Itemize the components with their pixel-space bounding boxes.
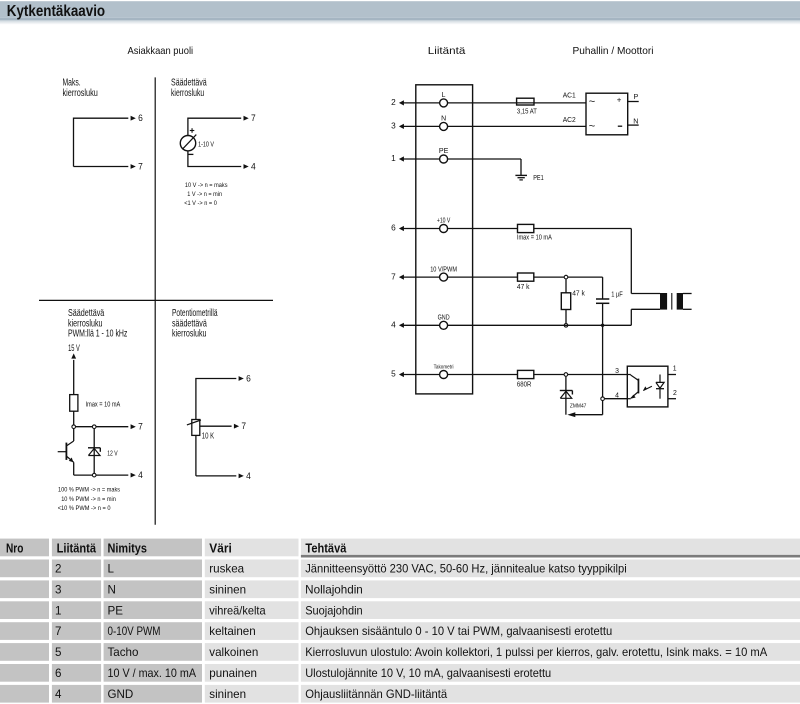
- svg-text:Imax = 10 mA: Imax = 10 mA: [517, 235, 552, 242]
- svg-text:kierrosluku: kierrosluku: [63, 88, 98, 99]
- divider vertical line: [154, 77, 156, 524]
- node label 7 (Q1): [138, 161, 143, 171]
- svg-text:P: P: [634, 92, 639, 101]
- svg-text:3: 3: [391, 121, 396, 131]
- svg-text:Liitäntä: Liitäntä: [428, 45, 466, 57]
- label Säädettävä kierrosluku (Q2): [171, 78, 207, 100]
- svg-text:Ohjausliitännän GND-liitäntä: Ohjausliitännän GND-liitäntä: [305, 688, 448, 701]
- svg-text:L: L: [442, 92, 446, 99]
- node label 6 (Q1): [138, 113, 143, 123]
- optocoupler U1: [627, 366, 668, 407]
- resistor R2 (Imax = 10 mA): [518, 224, 534, 232]
- svg-text:Säädettävä: Säädettävä: [171, 78, 207, 89]
- svg-text:4: 4: [55, 688, 62, 701]
- svg-text:Kytkentäkaavio: Kytkentäkaavio: [7, 3, 105, 20]
- svg-text:2: 2: [673, 390, 677, 397]
- resistor R3 47 k horizontal: [518, 273, 534, 281]
- resistor R4 47 k vertical: [561, 279, 570, 323]
- wire motor N output: [628, 124, 639, 126]
- fuse F1 3,15 AT: [517, 98, 534, 105]
- svg-text:6: 6: [55, 667, 61, 680]
- svg-text:Tehtävä: Tehtävä: [305, 541, 347, 556]
- label Säädettävä kierrosluku PWM:llä (Q3): [68, 308, 127, 340]
- resistor R5 680R: [518, 370, 534, 378]
- wire pot bottom to terminal 4: [196, 435, 244, 478]
- net label AC2: [563, 117, 576, 124]
- svg-text:Tacho: Tacho: [108, 646, 139, 659]
- svg-text:6: 6: [391, 223, 396, 233]
- node E open junction on GND line: [564, 324, 568, 328]
- svg-text:680R: 680R: [517, 381, 532, 388]
- svg-text:47 k: 47 k: [572, 291, 585, 298]
- value label Imax = 10 mA (main): [517, 235, 552, 242]
- svg-text:2: 2: [55, 563, 61, 576]
- section label Asiakkaan puoli: [128, 45, 194, 57]
- wire node A to terminal 7: [76, 424, 136, 429]
- connector plug to motor (shielded): [660, 293, 692, 310]
- wire 15 V with up arrow: [71, 353, 76, 394]
- svg-text:~: ~: [589, 96, 595, 108]
- label Maks. kierrosluku: [63, 78, 98, 100]
- svg-text:AC1: AC1: [563, 92, 576, 99]
- svg-text:N: N: [108, 583, 116, 596]
- transistor Q1 (NPN): [58, 429, 74, 475]
- svg-text:N: N: [633, 117, 638, 126]
- terminal 7 (10 V/PWM) with pin circle and left arrow: [391, 266, 457, 281]
- wire pin 1 stub: [668, 374, 676, 376]
- svg-text:10 V/PWM: 10 V/PWM: [430, 266, 457, 273]
- note text Q3 PWM mapping: [58, 486, 121, 512]
- svg-text:4: 4: [138, 470, 143, 480]
- wire +10 V to connector: [448, 229, 660, 294]
- svg-text:Väri: Väri: [209, 541, 232, 556]
- value label 47 k (R3): [517, 284, 530, 291]
- title bar: [0, 1, 800, 24]
- svg-text:Suojajohdin: Suojajohdin: [305, 604, 363, 617]
- node B open junction: [92, 425, 96, 429]
- svg-text:PWM:llä 1 - 10 kHz: PWM:llä 1 - 10 kHz: [68, 329, 127, 340]
- capacitor C1 1 uF: [596, 277, 609, 397]
- svg-text:10 V / max. 10 mA: 10 V / max. 10 mA: [108, 667, 197, 680]
- terminal block X1: [416, 85, 473, 394]
- terminal 2 (L) with pin circle and left arrow: [391, 92, 448, 107]
- pin label 4: [615, 392, 619, 399]
- svg-text:keltainen: keltainen: [209, 625, 255, 638]
- svg-text:kierrosluku: kierrosluku: [68, 318, 103, 329]
- svg-text:PE1: PE1: [533, 175, 544, 182]
- terminal 4 (GND) with pin circle and left arrow: [391, 315, 450, 330]
- terminal 5 (Takometri) with pin circle and left arrow: [391, 365, 453, 379]
- wire pin 2 stub: [668, 398, 676, 400]
- svg-text:Maks.: Maks.: [63, 78, 81, 89]
- svg-text:1-10 V: 1-10 V: [198, 141, 214, 148]
- svg-text:ZMM47: ZMM47: [570, 403, 587, 409]
- value label 3,15 AT: [517, 109, 538, 116]
- value label 47 k (R4): [572, 291, 585, 298]
- pin label 3: [615, 368, 619, 375]
- svg-text:Potentiometrillä: Potentiometrillä: [172, 308, 218, 319]
- junction dot GND-capacitor crossing: [601, 324, 604, 327]
- node label 7 (Q3): [138, 422, 143, 432]
- table: [0, 539, 800, 703]
- wire motor P output: [628, 101, 639, 103]
- terminal 3 (N) with pin circle and left arrow: [391, 116, 448, 131]
- svg-text:säädettävä: säädettävä: [172, 318, 207, 329]
- svg-text:100 % PWM -> n = maks: 100 % PWM -> n = maks: [58, 486, 121, 493]
- wire 10 V/PWM to RC node: [448, 276, 603, 278]
- svg-text:5: 5: [391, 369, 396, 379]
- svg-text:10 % PWM -> n = min: 10 % PWM -> n = min: [61, 496, 116, 503]
- wire Q2 source minus to terminal 4: [188, 151, 249, 169]
- motor M1 box: [586, 93, 628, 135]
- node D open junction on PWM line: [564, 275, 568, 279]
- svg-text:6: 6: [246, 373, 251, 383]
- node A open junction: [72, 425, 76, 429]
- label 15 V supply: [68, 343, 80, 353]
- svg-text:vihreä/kelta: vihreä/kelta: [209, 604, 266, 617]
- svg-text:7: 7: [391, 271, 396, 281]
- phototransistor inside U1: [627, 375, 639, 399]
- svg-text:Jännitteensyöttö 230 VAC, 50-6: Jännitteensyöttö 230 VAC, 50-60 Hz, jänn…: [305, 563, 627, 576]
- svg-text:1 V -> n = min: 1 V -> n = min: [187, 191, 222, 198]
- node label 6 (Q4): [246, 373, 251, 383]
- svg-text:Ulostulojännite 10 V, 10 mA, g: Ulostulojännite 10 V, 10 mA, galvaanises…: [305, 667, 551, 680]
- svg-text:N: N: [441, 116, 446, 123]
- svg-text:3: 3: [615, 368, 619, 375]
- svg-text:7: 7: [138, 422, 143, 432]
- svg-text:4: 4: [251, 161, 256, 171]
- svg-text:Imax = 10 mA: Imax = 10 mA: [86, 402, 121, 409]
- wire pot top to terminal 6: [196, 376, 244, 419]
- section label Liitäntä: [428, 45, 466, 57]
- svg-text:Säädettävä: Säädettävä: [68, 308, 105, 319]
- svg-text:4: 4: [246, 471, 251, 481]
- wire Q2 source plus to terminal 7: [188, 116, 249, 136]
- svg-text:1 µF: 1 µF: [611, 292, 623, 299]
- svg-text:Puhallin / Moottori: Puhallin / Moottori: [573, 45, 654, 57]
- svg-text:0-10V PWM: 0-10V PWM: [108, 625, 161, 638]
- svg-text:4: 4: [391, 320, 396, 330]
- wire node G to optocoupler pin 4: [605, 398, 628, 400]
- svg-text:Liitäntä: Liitäntä: [57, 541, 97, 556]
- value label 1 uF: [611, 292, 623, 299]
- svg-text:Asiakkaan puoli: Asiakkaan puoli: [128, 45, 194, 57]
- terminal 6 (+10 V) with pin circle and left arrow: [391, 218, 451, 233]
- wire GND to connector: [448, 309, 660, 325]
- wire pot wiper to terminal 7: [200, 424, 239, 429]
- note text Q2 voltage mapping: [184, 182, 228, 207]
- zener diode D1 12 V: [88, 429, 100, 473]
- value label 680R: [517, 381, 532, 388]
- svg-text:valkoinen: valkoinen: [209, 646, 258, 659]
- svg-text:sininen: sininen: [209, 688, 246, 701]
- wire Q1 to terminal 7: [74, 164, 136, 169]
- svg-text:Nollajohdin: Nollajohdin: [305, 583, 363, 596]
- svg-text:4: 4: [615, 392, 619, 399]
- svg-text:12 V: 12 V: [107, 449, 117, 458]
- wire L to fuse and AC1: [448, 102, 586, 104]
- svg-text:7: 7: [138, 161, 143, 171]
- pin label P: [634, 92, 639, 101]
- svg-text:<1 V -> n = 0: <1 V -> n = 0: [184, 200, 217, 207]
- svg-text:5: 5: [55, 646, 61, 659]
- ground PE1: [515, 175, 527, 180]
- svg-text:10 K: 10 K: [202, 432, 215, 441]
- wire resistor to node A: [73, 411, 75, 424]
- svg-text:GND: GND: [108, 688, 134, 701]
- value label Imax = 10 mA (Q3): [86, 402, 121, 409]
- node F open junction on tacho line: [564, 373, 568, 377]
- wire emitter rail to terminal 4: [74, 473, 136, 478]
- svg-text:L: L: [108, 563, 115, 576]
- svg-text:sininen: sininen: [209, 583, 246, 596]
- svg-text:GND: GND: [438, 315, 450, 322]
- value label ZMM47: [570, 403, 587, 409]
- svg-text:+: +: [617, 95, 622, 104]
- node label 4 (Q3): [138, 470, 143, 480]
- svg-text:7: 7: [55, 625, 61, 638]
- svg-text:Ohjauksen sisääntulo 0 - 10 V: Ohjauksen sisääntulo 0 - 10 V tai PWM, g…: [305, 625, 612, 638]
- wire zener return with arrow: [567, 401, 602, 417]
- svg-text:ruskea: ruskea: [209, 563, 244, 576]
- svg-text:Kierrosluvun ulostulo: Avoin k: Kierrosluvun ulostulo: Avoin kollektori,…: [305, 646, 767, 659]
- svg-text:1: 1: [391, 153, 396, 163]
- voltage source V1 1-10 V: [180, 128, 196, 154]
- svg-text:+10 V: +10 V: [437, 218, 451, 225]
- svg-text:punainen: punainen: [209, 667, 257, 680]
- net label AC1: [563, 92, 576, 99]
- svg-text:<10 % PWM -> n = 0: <10 % PWM -> n = 0: [58, 505, 111, 512]
- label Potentiometrillä säädettävä kierrosluku (Q4): [172, 308, 218, 340]
- wire Q1 to terminal 6: [74, 116, 136, 167]
- section label Puhallin / Moottori: [573, 45, 654, 57]
- svg-text:PE: PE: [439, 148, 449, 155]
- svg-text:~: ~: [589, 121, 595, 133]
- node label 4 (Q4): [246, 471, 251, 481]
- zener diode D2 ZMM47: [560, 377, 573, 415]
- node label 4 (Q2): [251, 161, 256, 171]
- svg-text:Takometri: Takometri: [434, 365, 454, 371]
- svg-text:3: 3: [55, 583, 61, 596]
- svg-text:10 V -> n = maks: 10 V -> n = maks: [185, 182, 228, 189]
- svg-text:47 k: 47 k: [517, 284, 530, 291]
- node G open junction at pin 4 line: [601, 397, 605, 401]
- svg-text:Nimitys: Nimitys: [108, 541, 147, 556]
- value label 10 K: [202, 432, 215, 441]
- node C open junction: [92, 473, 96, 477]
- pin label 2: [673, 390, 677, 397]
- svg-text:Nro: Nro: [6, 541, 23, 556]
- svg-text:AC2: AC2: [563, 117, 576, 124]
- terminal 1 (PE) with pin circle and left arrow: [391, 148, 449, 163]
- svg-text:7: 7: [251, 113, 256, 123]
- node label 7 (Q4): [241, 421, 246, 431]
- node label 7 (Q2): [251, 113, 256, 123]
- wire PE to ground: [448, 159, 521, 175]
- LED inside U1: [656, 375, 664, 399]
- value label 12 V: [107, 449, 117, 458]
- svg-text:6: 6: [138, 113, 143, 123]
- svg-text:1: 1: [55, 604, 61, 617]
- wire N to AC2: [448, 125, 586, 127]
- svg-text:3,15 AT: 3,15 AT: [517, 109, 538, 116]
- svg-text:2: 2: [391, 97, 396, 107]
- svg-text:PE: PE: [108, 604, 124, 617]
- svg-text:15 V: 15 V: [68, 343, 80, 353]
- wire Takometri to optocoupler pin 3: [448, 374, 627, 376]
- svg-text:kierrosluku: kierrosluku: [171, 88, 204, 99]
- svg-text:kierrosluku: kierrosluku: [172, 329, 207, 340]
- pin label 1: [673, 366, 677, 373]
- pin label N: [633, 117, 638, 126]
- resistor R1 (Imax = 10 mA): [70, 395, 78, 412]
- optical arrow inside U1: [643, 386, 652, 391]
- net label PE1: [533, 175, 544, 182]
- svg-text:1: 1: [673, 366, 677, 373]
- svg-text:7: 7: [241, 421, 246, 431]
- value label 1-10 V: [198, 141, 214, 148]
- potentiometer P1 10 K: [187, 420, 201, 436]
- divider horizontal line: [39, 299, 273, 301]
